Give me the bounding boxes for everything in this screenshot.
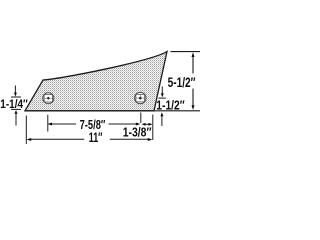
dim 1-1/2 (right small): [158, 87, 165, 127]
svg-text:1-1/4″: 1-1/4″: [0, 97, 28, 111]
blade body: [25, 52, 167, 111]
dim 7-5/8: [48, 113, 141, 132]
hole 2: [135, 92, 146, 103]
svg-text:5-1/2″: 5-1/2″: [168, 74, 196, 90]
dim 5-1/2 (right tall): [192, 57, 194, 107]
dim 1-3/8: [143, 115, 153, 141]
svg-text:1-1/2″: 1-1/2″: [156, 97, 184, 112]
bottom edge / extension line: [25, 110, 201, 112]
top extension line: [171, 51, 201, 53]
dim 11: [26, 116, 149, 145]
dim 1-1/4 (left): [11, 86, 21, 126]
svg-text:11″: 11″: [89, 130, 103, 145]
svg-text:1-3/8″: 1-3/8″: [123, 125, 152, 140]
hole 1: [43, 93, 54, 104]
